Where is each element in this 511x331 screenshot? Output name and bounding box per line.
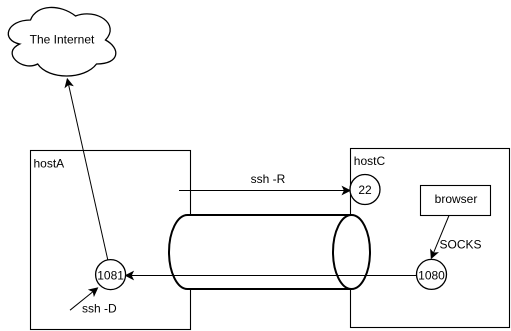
container hostC: [351, 149, 510, 328]
svg-text:ssh -D: ssh -D: [82, 301, 117, 315]
tunnel body: [169, 215, 351, 289]
tunnel end ellipse: [333, 215, 370, 289]
wire ssh -R arrow from hostA to port 22: [179, 172, 350, 194]
wire SOCKS arrow from browser to port 1080: [431, 216, 482, 259]
cloud The Internet: [8, 7, 116, 76]
wire ssh -D annotation arrow: [70, 288, 117, 315]
wire arrow from port 1080 to port 1081 through tunnel: [126, 272, 417, 279]
svg-text:hostC: hostC: [354, 154, 386, 168]
svg-text:browser: browser: [435, 192, 478, 206]
svg-text:22: 22: [358, 183, 372, 197]
node port 22: [350, 175, 380, 205]
svg-text:hostA: hostA: [34, 156, 65, 170]
browser box: [421, 186, 491, 216]
svg-text:SOCKS: SOCKS: [440, 238, 482, 252]
wire arrow from port 1081 to The Internet: [65, 79, 107, 260]
node port 1080: [417, 259, 447, 289]
node port 1081: [96, 260, 126, 290]
svg-text:The Internet: The Internet: [30, 32, 95, 46]
container hostA: [31, 151, 191, 330]
svg-text:ssh -R: ssh -R: [251, 172, 286, 186]
svg-text:1081: 1081: [97, 268, 124, 282]
svg-text:1080: 1080: [418, 268, 445, 282]
